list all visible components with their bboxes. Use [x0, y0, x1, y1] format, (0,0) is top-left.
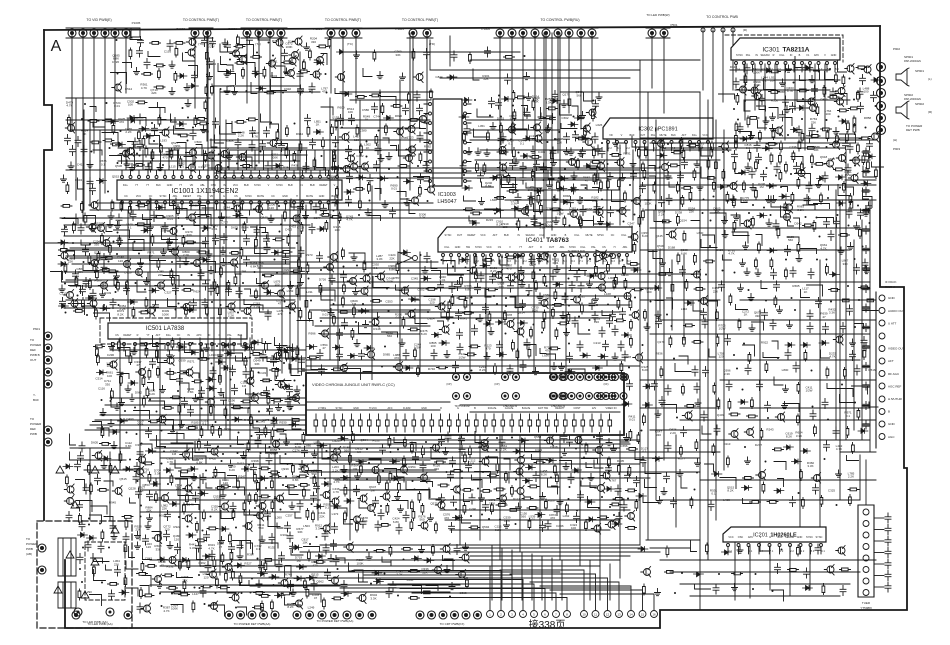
svg-text:120: 120 — [269, 206, 274, 210]
svg-text:C662: C662 — [561, 116, 569, 120]
ground — [786, 65, 792, 72]
junction — [309, 91, 311, 93]
wire — [221, 57, 227, 65]
capacitor C161 — [478, 272, 484, 282]
resistor R995 — [100, 269, 111, 272]
resistor R418 — [227, 281, 230, 292]
junction — [246, 90, 248, 92]
wire — [835, 94, 847, 105]
diode D826 — [470, 221, 480, 226]
bottom connectors TO LED PWB — [72, 611, 80, 619]
capacitor C958 — [230, 366, 236, 376]
capacitor C608 — [202, 37, 208, 47]
ground — [303, 212, 309, 219]
capacitor C151 — [483, 304, 489, 314]
svg-text:P501: P501 — [670, 23, 677, 27]
capacitor C400 — [390, 208, 396, 218]
resistor R534 — [705, 177, 716, 180]
junction — [65, 312, 67, 314]
junction — [225, 226, 227, 228]
junction — [526, 225, 528, 227]
svg-text:3.4: 3.4 — [515, 260, 519, 263]
capacitor C838 — [367, 175, 373, 185]
resistor R328 — [305, 298, 308, 309]
resistor R228 — [306, 263, 309, 274]
capacitor C151 — [520, 300, 526, 310]
wire — [83, 266, 99, 271]
resistor R190 — [826, 264, 829, 275]
svg-text:2.2K: 2.2K — [332, 469, 338, 473]
capacitor C441 — [682, 159, 688, 169]
wire — [111, 396, 117, 407]
ground — [863, 209, 869, 216]
resistor R218 — [192, 380, 203, 383]
capacitor C202 — [202, 299, 208, 309]
capacitor C174 — [807, 310, 813, 320]
junction — [124, 410, 126, 412]
svg-text:R859: R859 — [820, 98, 828, 102]
transistor T616 — [412, 197, 419, 204]
diode D656 — [58, 262, 68, 267]
resistor R731 — [100, 443, 111, 446]
svg-text:8.2K: 8.2K — [257, 264, 263, 268]
junction — [341, 127, 343, 129]
ground — [170, 426, 176, 433]
capacitor C823 — [550, 147, 556, 157]
svg-text:LH5047: LH5047 — [437, 199, 456, 205]
svg-text:GND: GND — [282, 195, 288, 198]
resistor R460 — [752, 217, 755, 228]
svg-text:0.01: 0.01 — [114, 104, 120, 108]
svg-text:R516: R516 — [868, 368, 876, 372]
transistor T480 — [289, 303, 296, 310]
junction — [283, 410, 285, 412]
svg-text:PAL: PAL — [746, 54, 751, 57]
resistor R370 — [867, 160, 870, 171]
diode D961 — [569, 187, 579, 192]
wire — [267, 357, 279, 362]
capacitor C233 — [81, 146, 87, 156]
wire — [703, 235, 715, 243]
resistor R382 — [391, 105, 402, 108]
resistor R976 — [632, 288, 643, 291]
svg-text:(CP): (CP) — [446, 383, 451, 386]
svg-text:R344: R344 — [558, 176, 566, 180]
svg-text:L115: L115 — [169, 165, 176, 169]
svg-text:1/2W: 1/2W — [844, 173, 851, 177]
resistor R212 — [759, 131, 762, 142]
svg-text:VD: VD — [190, 184, 194, 187]
wire — [719, 94, 735, 99]
svg-text:SYNC: SYNC — [445, 234, 452, 237]
svg-text:D436: D436 — [556, 524, 564, 528]
resistor R322 — [683, 231, 686, 242]
resistor R412 — [681, 196, 684, 207]
wire — [801, 249, 817, 254]
wire — [502, 177, 514, 188]
svg-text:330: 330 — [199, 564, 204, 568]
resistor R596 — [772, 129, 775, 140]
svg-text:L193: L193 — [160, 139, 167, 143]
junction — [397, 176, 399, 178]
ground — [864, 267, 870, 274]
junction — [216, 345, 218, 347]
svg-text:L970: L970 — [209, 353, 216, 357]
svg-text:KILL: KILL — [574, 234, 580, 237]
svg-text:OSC: OSC — [211, 184, 217, 187]
svg-text:R678: R678 — [624, 355, 632, 359]
svg-text:R973: R973 — [305, 253, 313, 257]
svg-text:POWER: POWER — [26, 542, 38, 546]
junction — [816, 259, 818, 261]
resistor R132 — [471, 212, 482, 215]
bus wires horizontal — [44, 52, 876, 596]
svg-text:VD: VD — [609, 134, 613, 137]
wire — [241, 218, 247, 223]
transistor T168 — [295, 38, 302, 45]
ground — [537, 293, 543, 300]
transistor T171 — [124, 261, 131, 268]
wire — [51, 272, 63, 280]
resistor R993 — [716, 310, 719, 321]
junction — [710, 220, 712, 222]
svg-text:33K: 33K — [297, 530, 302, 534]
svg-text:13: 13 — [617, 613, 621, 617]
svg-text:1K: 1K — [272, 63, 276, 67]
capacitor C472 — [173, 285, 179, 295]
junction — [581, 197, 583, 199]
diode D990 — [740, 137, 750, 142]
transistor T265 — [586, 139, 593, 146]
ground — [354, 340, 360, 347]
junction — [171, 261, 173, 263]
transistor T909 — [751, 87, 758, 94]
junction — [253, 392, 255, 394]
wire — [184, 157, 193, 168]
ground — [763, 117, 769, 124]
diode D798 — [118, 419, 128, 424]
svg-text:0.1: 0.1 — [127, 226, 132, 230]
capacitor C820 — [822, 172, 828, 182]
svg-text:R571: R571 — [187, 360, 195, 364]
resistor R709 — [97, 354, 100, 365]
capacitor C717 — [346, 196, 352, 206]
svg-text:330: 330 — [755, 314, 760, 318]
wire — [114, 230, 130, 238]
svg-text:22K: 22K — [483, 77, 488, 81]
ground — [660, 259, 666, 266]
ground — [484, 353, 490, 360]
resistor R181 — [694, 288, 705, 291]
wire — [207, 262, 216, 273]
junction — [262, 274, 264, 276]
resistor R265 — [263, 67, 266, 78]
svg-text:TA8211A: TA8211A — [783, 47, 810, 54]
diode D614 — [189, 84, 199, 89]
resistor R753 — [353, 306, 356, 317]
ground — [160, 386, 166, 393]
svg-text:D238: D238 — [675, 211, 683, 215]
svg-text:1/2W: 1/2W — [458, 356, 465, 360]
capacitor C760 — [631, 170, 637, 180]
resistor R621 — [801, 131, 804, 142]
wire — [168, 434, 184, 439]
IC401 TA8763 chroma — [438, 227, 632, 252]
junction — [281, 384, 283, 386]
ground — [838, 247, 844, 254]
capacitor C741 — [496, 99, 502, 109]
wire — [667, 298, 673, 309]
wire — [149, 344, 165, 349]
junction — [110, 400, 112, 402]
svg-text:AFT: AFT — [682, 134, 687, 137]
svg-text:10K: 10K — [302, 541, 307, 545]
ground — [518, 267, 524, 274]
svg-text:IC1001 1X1194CEN2: IC1001 1X1194CEN2 — [172, 188, 239, 195]
resistor R366 — [213, 280, 216, 291]
resistor R489 — [343, 283, 346, 294]
transistor T223 — [596, 209, 603, 216]
junction — [713, 196, 715, 198]
resistor R206 — [857, 91, 860, 102]
wire — [236, 356, 248, 361]
resistor R759 — [859, 137, 870, 140]
ground — [353, 288, 359, 295]
ground — [770, 125, 776, 132]
svg-text:0.01: 0.01 — [271, 452, 277, 456]
junction — [599, 212, 601, 214]
transistor T956 — [442, 326, 449, 333]
capacitor C758 — [133, 473, 139, 483]
wire — [349, 253, 365, 264]
wire — [391, 146, 397, 151]
resistor R338 — [682, 149, 685, 160]
svg-text:4.7K: 4.7K — [346, 218, 352, 222]
diode D235 — [575, 116, 585, 121]
resistor R807 — [853, 116, 856, 127]
resistor R746 — [88, 120, 99, 123]
ground — [185, 100, 191, 107]
capacitor C601 — [144, 221, 150, 231]
resistor R706 — [792, 151, 795, 162]
svg-text:330: 330 — [656, 433, 661, 437]
capacitor C983 — [599, 148, 605, 158]
svg-text:5.0: 5.0 — [563, 260, 567, 263]
svg-text:D168: D168 — [668, 246, 676, 250]
junction — [294, 123, 296, 125]
wire — [126, 351, 132, 356]
transistor T981 — [428, 186, 435, 193]
diode D773 — [767, 184, 777, 189]
svg-text:D117: D117 — [513, 497, 520, 501]
svg-text:TO POWER DET PWB(AA): TO POWER DET PWB(AA) — [234, 622, 271, 626]
transistor T338 — [101, 282, 108, 289]
svg-text:100: 100 — [498, 285, 503, 289]
resistor R312 — [204, 100, 207, 111]
capacitor C990 — [846, 208, 852, 218]
connector P1001 TO CONTROL PWB(T) — [243, 29, 251, 37]
svg-text:D985: D985 — [383, 353, 391, 357]
svg-text:G: G — [769, 536, 771, 539]
wire — [504, 178, 516, 189]
resistor R542 — [220, 266, 223, 277]
resistor R319 — [363, 261, 366, 272]
svg-text:Q536: Q536 — [115, 164, 123, 168]
transistor T324 — [98, 225, 105, 232]
junction — [406, 149, 408, 151]
resistor R641 — [528, 347, 531, 358]
wire — [761, 281, 767, 289]
junction — [811, 166, 813, 168]
resistor R892 — [513, 148, 516, 159]
transistor T692 — [662, 164, 669, 171]
svg-text:R412: R412 — [237, 462, 245, 466]
capacitor C776 — [282, 50, 288, 60]
wire — [244, 300, 260, 305]
resistor R951 — [409, 119, 420, 122]
transistor T809 — [233, 50, 240, 57]
diode D565 — [251, 340, 261, 345]
capacitor C459 — [498, 135, 504, 145]
svg-text:G: G — [219, 334, 221, 337]
resistor R701 — [555, 328, 558, 339]
ground — [59, 285, 65, 292]
resistor R185 — [617, 298, 620, 309]
resistor R389 — [744, 74, 747, 85]
diode D688 — [206, 377, 216, 382]
svg-text:6.3: 6.3 — [611, 260, 615, 263]
junction — [388, 168, 390, 170]
junction — [384, 346, 386, 348]
junction — [236, 228, 238, 230]
diode D960 — [281, 348, 291, 353]
wire — [524, 345, 536, 356]
transistor T132 — [701, 298, 708, 305]
svg-text:1/2W: 1/2W — [207, 45, 214, 49]
svg-text:C844: C844 — [435, 75, 443, 79]
wire — [160, 109, 166, 120]
transistor T469 — [170, 228, 177, 235]
ground — [404, 199, 410, 206]
junction — [113, 241, 115, 243]
power connectors left — [38, 544, 46, 552]
svg-text:R398: R398 — [251, 459, 259, 463]
junction — [120, 130, 122, 132]
svg-text:0.01: 0.01 — [322, 313, 328, 317]
svg-text:330: 330 — [842, 262, 847, 266]
svg-text:0.01: 0.01 — [138, 422, 144, 426]
capacitor C759 — [95, 475, 101, 485]
ground — [101, 462, 107, 469]
capacitor C393 — [847, 305, 853, 315]
svg-text:BUF: BUF — [33, 398, 39, 402]
svg-text:A: A — [51, 38, 62, 55]
svg-text:0.1: 0.1 — [520, 142, 525, 146]
svg-text:MUTE: MUTE — [257, 195, 264, 198]
resistor R686 — [230, 252, 241, 255]
svg-text:RF AGC: RF AGC — [888, 372, 900, 376]
svg-text:BLK: BLK — [156, 184, 161, 187]
svg-text:22K: 22K — [713, 290, 718, 294]
svg-text:SP902: SP902 — [904, 93, 913, 97]
junction — [634, 214, 636, 216]
junction — [559, 131, 561, 133]
resistor R138 — [828, 96, 839, 99]
wire — [396, 285, 408, 290]
wire — [317, 168, 326, 176]
wire — [818, 218, 834, 223]
svg-text:(AB): (AB) — [26, 552, 32, 556]
resistor R903 — [530, 196, 533, 207]
svg-text:R234: R234 — [621, 273, 629, 277]
svg-text:ABL: ABL — [560, 246, 565, 249]
resistor R853 — [138, 343, 149, 346]
ground — [554, 266, 560, 273]
diode D278 — [462, 186, 472, 191]
diode D718 — [757, 213, 767, 218]
ground — [580, 112, 586, 119]
capacitor C501 — [773, 220, 779, 230]
resistor R320 — [579, 215, 582, 226]
svg-text:100K: 100K — [386, 280, 393, 284]
capacitor C990 — [564, 133, 570, 143]
junction — [573, 116, 575, 118]
wire — [363, 372, 372, 380]
diode D157 — [403, 366, 413, 371]
junction — [790, 173, 792, 175]
svg-text:6.8K: 6.8K — [393, 520, 399, 524]
resistor R837 — [628, 263, 639, 266]
junction — [126, 432, 128, 434]
wire — [787, 237, 799, 242]
junction — [541, 332, 543, 334]
diode D360 — [622, 333, 632, 338]
resistor R610 — [542, 320, 545, 331]
resistor R215 — [158, 69, 161, 80]
resistor R461 — [465, 353, 476, 356]
wire — [632, 136, 648, 147]
diode D154 — [718, 185, 728, 190]
ground — [218, 389, 224, 396]
capacitor C741 — [372, 103, 378, 113]
ground — [596, 93, 602, 100]
junction — [607, 163, 609, 165]
wire — [321, 107, 333, 115]
resistor R445 — [402, 317, 405, 328]
ground — [744, 268, 750, 275]
resistor R471 — [359, 199, 362, 210]
diode D280 — [364, 346, 374, 351]
svg-text:CC: CC — [271, 195, 275, 198]
transistor T575 — [598, 163, 605, 170]
junction — [574, 131, 576, 133]
transistor T425 — [694, 271, 701, 278]
wire — [612, 191, 624, 202]
resistor R118 — [320, 214, 331, 217]
junction — [546, 285, 548, 287]
ground — [559, 363, 565, 370]
ground — [547, 181, 553, 188]
capacitor C156 — [860, 75, 866, 85]
ground — [526, 93, 532, 100]
wire — [111, 73, 127, 84]
transistor T794 — [571, 211, 578, 218]
transistor T473 — [351, 163, 358, 170]
svg-text:R347: R347 — [238, 475, 246, 479]
capacitor C670 — [737, 123, 743, 133]
svg-text:2.2: 2.2 — [801, 550, 805, 553]
wire — [168, 239, 177, 250]
